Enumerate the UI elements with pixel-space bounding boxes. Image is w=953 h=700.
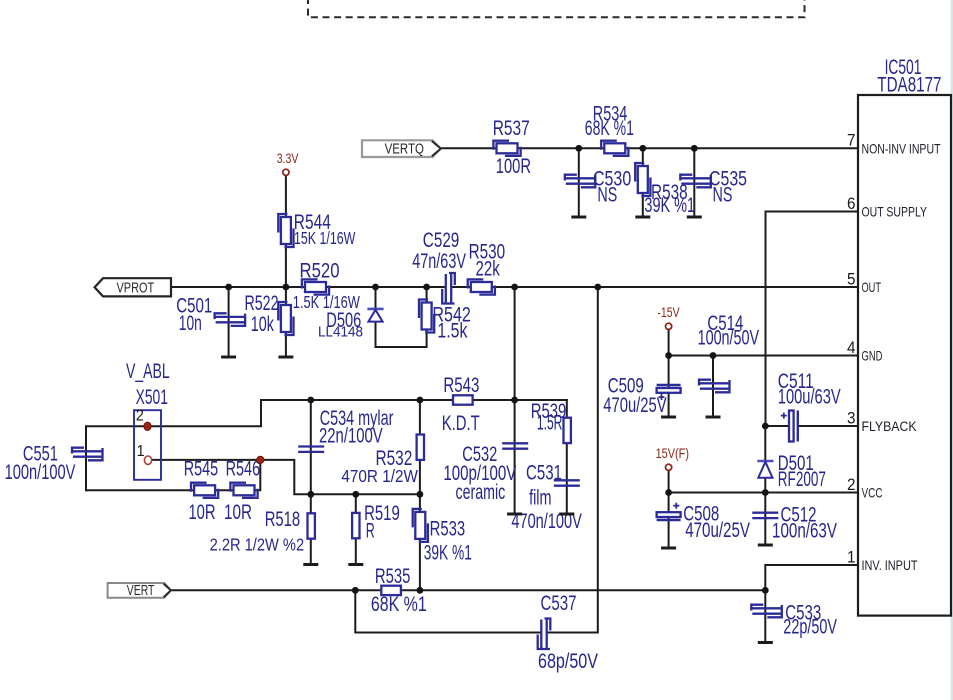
wire VCC pin2 net bbox=[669, 492, 858, 494]
capacitor C537 bbox=[538, 619, 551, 650]
svg-text:film: film bbox=[529, 486, 551, 509]
svg-text:X501: X501 bbox=[136, 386, 168, 409]
junction bbox=[511, 397, 518, 404]
power node 3.3V bbox=[283, 169, 289, 175]
ground at C508 bbox=[661, 547, 676, 549]
svg-text:-15V: -15V bbox=[657, 305, 679, 320]
net tag VPROT bbox=[95, 278, 171, 296]
svg-text:39K %1: 39K %1 bbox=[644, 194, 695, 217]
svg-text:470u/25V: 470u/25V bbox=[685, 519, 750, 542]
resistor R537 bbox=[493, 141, 520, 156]
svg-text:7: 7 bbox=[847, 132, 856, 150]
svg-text:R: R bbox=[366, 520, 375, 543]
svg-text:R520: R520 bbox=[300, 259, 340, 282]
svg-text:NS: NS bbox=[713, 184, 733, 207]
capacitor C508 bbox=[657, 503, 681, 520]
svg-text:K.D.T: K.D.T bbox=[442, 412, 480, 435]
svg-text:2.2R 1/2W %2: 2.2R 1/2W %2 bbox=[210, 534, 305, 554]
svg-text:6: 6 bbox=[847, 195, 856, 213]
wire D501 top segment bbox=[764, 426, 766, 464]
junction bbox=[665, 489, 672, 496]
svg-text:GND: GND bbox=[862, 348, 883, 364]
svg-text:LL4148: LL4148 bbox=[318, 324, 363, 341]
resistor R535 bbox=[381, 586, 401, 595]
capacitor C509 bbox=[657, 385, 681, 400]
svg-text:R533: R533 bbox=[430, 518, 466, 541]
junction bbox=[665, 352, 672, 359]
wire net VERTQ to pin7 bbox=[441, 147, 858, 149]
wire FLYBACK left segment bbox=[765, 425, 789, 427]
svg-text:10R: 10R bbox=[189, 501, 216, 524]
capacitor C530 bbox=[565, 175, 596, 188]
ground at R518 bbox=[303, 564, 318, 566]
ground at C531 bbox=[559, 513, 574, 515]
svg-text:22p/50V: 22p/50V bbox=[783, 615, 837, 638]
svg-text:ceramic: ceramic bbox=[456, 481, 506, 504]
svg-text:1.5R: 1.5R bbox=[537, 411, 563, 434]
svg-text:TDA8177: TDA8177 bbox=[877, 74, 941, 97]
wire OUT node down to R543 net bbox=[514, 287, 516, 400]
svg-text:100n/63V: 100n/63V bbox=[772, 520, 837, 543]
svg-text:39K %1: 39K %1 bbox=[424, 542, 472, 565]
svg-text:68K %1: 68K %1 bbox=[585, 117, 634, 140]
ground at C501 bbox=[221, 356, 236, 358]
junction bbox=[352, 491, 359, 498]
wire VERT to pin1 node bbox=[172, 589, 766, 591]
junction bbox=[762, 489, 769, 496]
svg-text:2: 2 bbox=[136, 408, 144, 425]
junction bbox=[762, 587, 769, 594]
wire 15V(F) drop bbox=[668, 471, 670, 493]
wire C535 to ground bbox=[693, 148, 695, 217]
junction bbox=[283, 284, 290, 291]
wire R539 C531 branch to ground bbox=[566, 400, 568, 514]
svg-text:INV. INPUT: INV. INPUT bbox=[862, 557, 918, 573]
wire C508 to ground bbox=[668, 493, 670, 549]
resistor R546 bbox=[230, 483, 257, 498]
junction bbox=[417, 397, 424, 404]
svg-text:C531: C531 bbox=[526, 461, 562, 484]
capacitor C511 bbox=[781, 411, 798, 442]
wire R532 R533 branch bbox=[419, 400, 421, 590]
svg-text:47n/63V: 47n/63V bbox=[412, 250, 466, 273]
wire VPROT to C529 bbox=[171, 286, 444, 288]
wire R518 to ground bbox=[310, 494, 312, 564]
svg-text:2: 2 bbox=[847, 476, 856, 494]
wire C530 to ground bbox=[578, 148, 580, 217]
svg-text:3: 3 bbox=[847, 409, 856, 427]
svg-text:10n: 10n bbox=[179, 312, 202, 335]
ground at C533 bbox=[758, 642, 773, 644]
junction bbox=[225, 284, 232, 291]
resistor R518 bbox=[308, 513, 315, 538]
resistor R539 bbox=[564, 418, 571, 443]
diode D506 LL4148 bbox=[367, 309, 383, 322]
svg-text:10k: 10k bbox=[251, 313, 274, 336]
junction bbox=[691, 145, 698, 152]
power node 15V(F) bbox=[666, 464, 672, 470]
power node -15V bbox=[666, 323, 672, 329]
net tag VERT bbox=[108, 583, 171, 598]
junction bbox=[352, 587, 359, 594]
svg-text:5: 5 bbox=[847, 270, 856, 288]
wire 3.3V rail through R544 R522 to ground bbox=[285, 176, 287, 358]
svg-text:R543: R543 bbox=[443, 374, 479, 397]
resistor R532 bbox=[417, 435, 424, 460]
svg-text:22n/100V: 22n/100V bbox=[319, 425, 383, 448]
resistor R533 bbox=[413, 509, 428, 542]
svg-text:VCC: VCC bbox=[862, 485, 883, 501]
svg-text:100n/50V: 100n/50V bbox=[698, 326, 760, 349]
connector X501 body bbox=[134, 410, 161, 480]
capacitor C533 bbox=[751, 605, 782, 618]
junction bbox=[762, 423, 769, 430]
page right border strip bbox=[951, 0, 953, 700]
capacitor C534 bbox=[298, 447, 324, 452]
ground at C535 bbox=[687, 216, 702, 218]
junction bbox=[417, 587, 424, 594]
wire X501 pin1 to bottom net bbox=[149, 460, 420, 494]
svg-text:C529: C529 bbox=[423, 229, 460, 252]
junction bbox=[417, 491, 424, 498]
resistor R544 bbox=[278, 214, 293, 247]
capacitor C512 bbox=[752, 513, 778, 518]
resistor R530 bbox=[468, 279, 495, 294]
svg-text:3.3V: 3.3V bbox=[277, 151, 299, 166]
wire C532 to ground bbox=[514, 400, 516, 514]
wire C501 to ground bbox=[228, 287, 230, 357]
capacitor C501 bbox=[215, 313, 246, 326]
ground at C514 bbox=[706, 416, 721, 418]
wire C514 to ground bbox=[712, 356, 714, 418]
resistor R543 bbox=[453, 395, 473, 404]
junction bbox=[594, 284, 601, 291]
resistor R519 bbox=[352, 513, 359, 538]
svg-text:1: 1 bbox=[137, 443, 145, 460]
wire D506 R542 loop bbox=[376, 287, 427, 347]
resistor R522 bbox=[278, 302, 293, 335]
junction bbox=[307, 397, 314, 404]
node X501 pin1 (red open) bbox=[144, 456, 151, 464]
net tag VERTQ bbox=[362, 140, 441, 157]
ground at C532 bbox=[507, 513, 522, 515]
svg-text:NS: NS bbox=[597, 184, 617, 207]
svg-text:R546: R546 bbox=[226, 458, 261, 481]
svg-text:NON-INV INPUT: NON-INV INPUT bbox=[862, 141, 941, 157]
svg-text:V_ABL: V_ABL bbox=[126, 360, 170, 383]
capacitor C529 bbox=[442, 273, 455, 304]
resistor R538 bbox=[635, 163, 650, 196]
wire FLYBACK right segment bbox=[800, 425, 859, 427]
ground at R538 bbox=[635, 216, 650, 218]
dashed enclosure box (top) bbox=[308, 0, 805, 17]
junction bbox=[372, 284, 379, 291]
wire C551 loop top bbox=[86, 426, 148, 490]
resistor R520 bbox=[302, 279, 329, 294]
svg-text:OUT: OUT bbox=[862, 279, 882, 295]
svg-text:15K 1/16W: 15K 1/16W bbox=[294, 228, 356, 248]
wire C551 to R545 R546 to red node bbox=[86, 460, 260, 490]
ground at C509 bbox=[661, 416, 676, 418]
wire R543 net and to X501 pin2 bbox=[148, 400, 567, 426]
IC IC501 TDA8177 body bbox=[858, 95, 951, 616]
capacitor C551 bbox=[72, 448, 103, 461]
svg-text:1.5k: 1.5k bbox=[437, 319, 467, 342]
svg-text:R535: R535 bbox=[375, 565, 411, 588]
svg-text:R522: R522 bbox=[245, 292, 279, 315]
diode D501 RF2007 bbox=[757, 461, 773, 478]
svg-text:100u/63V: 100u/63V bbox=[778, 386, 841, 409]
svg-text:R518: R518 bbox=[265, 508, 301, 531]
svg-text:22k: 22k bbox=[476, 258, 501, 281]
junction bbox=[575, 145, 582, 152]
capacitor C535 bbox=[680, 175, 711, 188]
svg-text:68p/50V: 68p/50V bbox=[538, 650, 598, 673]
node X501 pin2 (red) bbox=[144, 422, 151, 430]
svg-text:C537: C537 bbox=[541, 592, 577, 615]
wire OUT node down to C537 and VERT node bbox=[548, 287, 598, 633]
resistor R545 bbox=[191, 483, 218, 498]
svg-text:VPROT: VPROT bbox=[117, 279, 155, 296]
svg-text:R545: R545 bbox=[184, 458, 219, 481]
junction bbox=[639, 145, 646, 152]
svg-text:VERT: VERT bbox=[127, 582, 155, 599]
wire D501 bottom segment bbox=[764, 478, 766, 493]
wire R538 to ground bbox=[642, 148, 644, 217]
ground at R519 bbox=[348, 564, 363, 566]
capacitor C514 bbox=[699, 380, 730, 393]
wire C512 to ground bbox=[764, 493, 766, 546]
svg-text:OUT SUPPLY: OUT SUPPLY bbox=[862, 204, 928, 220]
wire C533 to ground bbox=[764, 590, 766, 642]
svg-text:VERTQ: VERTQ bbox=[385, 140, 424, 157]
resistor R542 bbox=[419, 300, 434, 333]
wire C534 branch bbox=[310, 400, 312, 494]
wire R519 to ground bbox=[355, 494, 357, 564]
svg-text:4: 4 bbox=[847, 339, 856, 357]
wire C529 to pin5 OUT bbox=[453, 286, 858, 288]
wire -15V drop bbox=[668, 330, 670, 356]
svg-text:RF2007: RF2007 bbox=[778, 468, 826, 491]
wire pin1 stub bbox=[765, 565, 858, 590]
svg-text:1: 1 bbox=[847, 548, 856, 566]
junction bbox=[307, 491, 314, 498]
ground at C530 bbox=[571, 216, 586, 218]
wire C509 to ground bbox=[668, 356, 670, 418]
svg-text:470R 1/2W: 470R 1/2W bbox=[341, 466, 418, 486]
capacitor C532 bbox=[502, 443, 528, 448]
ground at C512 bbox=[758, 544, 773, 546]
resistor R534 bbox=[601, 141, 628, 156]
capacitor C531 bbox=[554, 480, 580, 485]
svg-text:FLYBACK: FLYBACK bbox=[862, 418, 918, 434]
wire pin6 OUT SUPPLY down to FLYBACK node bbox=[766, 212, 859, 427]
wire GND pin4 net bbox=[669, 355, 858, 357]
svg-text:470u/25V: 470u/25V bbox=[603, 394, 666, 417]
node R546/pin1 junction (red) bbox=[257, 456, 264, 463]
ground at R522 bbox=[278, 356, 293, 358]
svg-text:10R: 10R bbox=[224, 501, 252, 524]
svg-text:R537: R537 bbox=[493, 117, 530, 140]
junction bbox=[511, 284, 518, 291]
junction bbox=[710, 352, 717, 359]
svg-text:68K %1: 68K %1 bbox=[371, 593, 427, 616]
svg-text:100n/100V: 100n/100V bbox=[5, 461, 76, 484]
svg-text:15V(F): 15V(F) bbox=[656, 446, 689, 461]
junction bbox=[423, 284, 430, 291]
svg-text:100R: 100R bbox=[496, 155, 531, 178]
